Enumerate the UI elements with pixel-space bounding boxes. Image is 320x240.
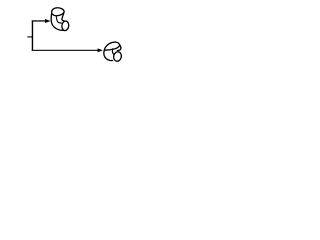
background — [0, 0, 150, 73]
pipe elbow E1: inner-wall bend line — [56, 16, 62, 24]
arrowhead into elbow E1 — [45, 19, 51, 23]
arrowhead into elbow E2 — [98, 48, 103, 52]
pipe elbow E1: opening rim — [52, 8, 64, 16]
pipe elbow E2: opening rim — [104, 42, 119, 50]
pipe elbow E2: outer edge — [104, 50, 113, 61]
pipe elbow E2: inner edge hook — [117, 45, 121, 51]
pipe elbow E2: toe ellipse — [113, 51, 123, 62]
pipe elbow E1: toe ellipse — [61, 21, 69, 31]
wire: vertical trunk — [31, 20, 33, 51]
wire: top branch — [32, 20, 46, 22]
pipe elbow E1: inner edge hook — [62, 12, 65, 21]
wire: bottom branch — [32, 49, 98, 51]
pipe elbow E2: inner-wall bend line — [112, 48, 115, 55]
pipe elbow E1: outer edge — [51, 13, 64, 31]
wire: stub from left into trunk — [27, 36, 33, 38]
